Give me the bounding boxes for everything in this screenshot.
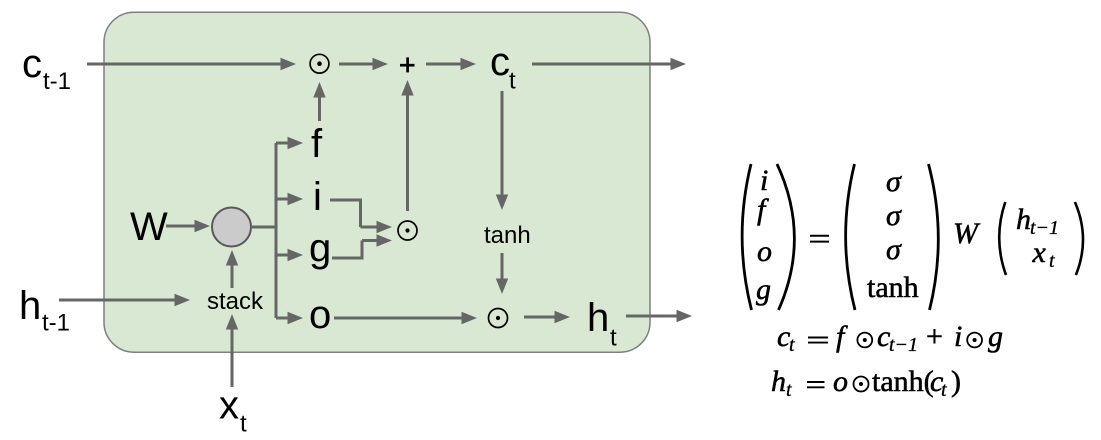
- odot node 3 (o * tanh(c_t)): [489, 309, 508, 328]
- svg-text:t: t: [610, 325, 617, 352]
- paren right of ifog vector: [777, 164, 794, 310]
- svg-text:h: h: [1016, 203, 1031, 236]
- svg-text:tanh(: tanh(: [872, 365, 934, 398]
- wire tanh down to odot3: [496, 253, 508, 294]
- odot node 2 (i * g): [398, 221, 417, 240]
- svg-text:t: t: [789, 334, 795, 356]
- branch vertical wire: [275, 143, 278, 318]
- svg-text:W: W: [953, 217, 981, 250]
- svg-text:t: t: [786, 379, 792, 401]
- svg-text:t−1: t−1: [889, 334, 918, 356]
- svg-text:t: t: [509, 68, 516, 95]
- wire h_t out of cell: [626, 310, 692, 322]
- label c_t: [490, 40, 516, 95]
- svg-text:c: c: [22, 42, 42, 86]
- plus node: [400, 57, 415, 72]
- wire c_{t-1} into cell: [87, 58, 296, 70]
- wire plus to c_t: [426, 58, 476, 70]
- paren left of ifog vector: [742, 164, 751, 310]
- wire odot2 up to plus: [401, 80, 413, 211]
- svg-text:): ): [951, 365, 961, 398]
- svg-text:c: c: [490, 40, 510, 84]
- label c_{t-1}: [22, 42, 71, 95]
- wire stack node to branch: [251, 226, 277, 229]
- paren left of sigma vector: [846, 164, 855, 310]
- wire W to stack node: [166, 220, 210, 232]
- branch arrow to o: [276, 312, 303, 324]
- svg-text:+: +: [926, 320, 943, 353]
- svg-text:t-1: t-1: [43, 68, 71, 95]
- paren right of hx vector: [1075, 202, 1083, 275]
- equation: c_t = f odot c_{t-1} + i odot g: [777, 320, 1003, 356]
- branch arrow to i: [276, 193, 303, 205]
- svg-text:t: t: [1049, 250, 1055, 272]
- wire h_{t-1} to stack: [59, 294, 190, 306]
- branch arrow to g: [276, 249, 303, 261]
- wire x_t up to stack: [226, 314, 238, 387]
- odot node 1 (f * c_{t-1}): [310, 54, 329, 73]
- wire f up into odot1: [313, 82, 325, 121]
- svg-text:o: o: [757, 235, 772, 268]
- svg-text:f: f: [836, 320, 848, 353]
- svg-text:σ: σ: [886, 165, 902, 198]
- svg-text:o: o: [833, 365, 848, 398]
- svg-text:g: g: [988, 320, 1003, 353]
- svg-text:h: h: [19, 284, 41, 328]
- svg-text:t-1: t-1: [42, 310, 70, 337]
- svg-text:i: i: [313, 175, 322, 219]
- wire stack up to gray circle: [226, 250, 238, 288]
- wire i to odot2: [330, 200, 392, 233]
- equation: h_t = o odot tanh(c_t): [771, 365, 961, 401]
- svg-text:x: x: [219, 384, 239, 428]
- svg-text:f: f: [757, 193, 769, 226]
- paren right of sigma vector: [929, 164, 939, 310]
- wire o to odot3: [334, 312, 477, 324]
- svg-text:f: f: [311, 122, 323, 166]
- svg-text:h: h: [587, 296, 609, 340]
- svg-text:g: g: [756, 273, 771, 306]
- label h_t: [587, 296, 617, 352]
- svg-text:t: t: [941, 379, 947, 401]
- LSTM cell body box: [104, 12, 650, 352]
- svg-text:tanh: tanh: [484, 222, 531, 249]
- svg-text:tanh: tanh: [867, 271, 919, 304]
- wire odot1 to plus: [339, 58, 388, 70]
- wire g to odot2: [332, 234, 392, 258]
- svg-text:stack: stack: [207, 288, 264, 315]
- svg-text:x: x: [1032, 236, 1047, 269]
- svg-text:W: W: [130, 205, 168, 249]
- svg-text:o: o: [309, 293, 331, 337]
- stack node (gray circle): [212, 208, 251, 247]
- equation: gate vector definition: [742, 164, 1083, 310]
- svg-text:σ: σ: [886, 199, 902, 232]
- svg-text:g: g: [309, 226, 331, 270]
- branch arrow to f: [276, 137, 303, 149]
- wire c_t out of cell: [532, 58, 686, 70]
- wire c_t down to tanh: [496, 91, 508, 210]
- label x_t: [219, 384, 247, 438]
- svg-text:t: t: [240, 411, 247, 438]
- svg-text:h: h: [771, 365, 786, 398]
- paren left of hx vector: [999, 202, 1006, 275]
- label h_{t-1}: [19, 284, 70, 337]
- wire odot3 to h_t: [524, 311, 570, 323]
- equals sign: [810, 236, 829, 242]
- svg-text:σ: σ: [886, 233, 902, 266]
- svg-text:i: i: [954, 320, 962, 353]
